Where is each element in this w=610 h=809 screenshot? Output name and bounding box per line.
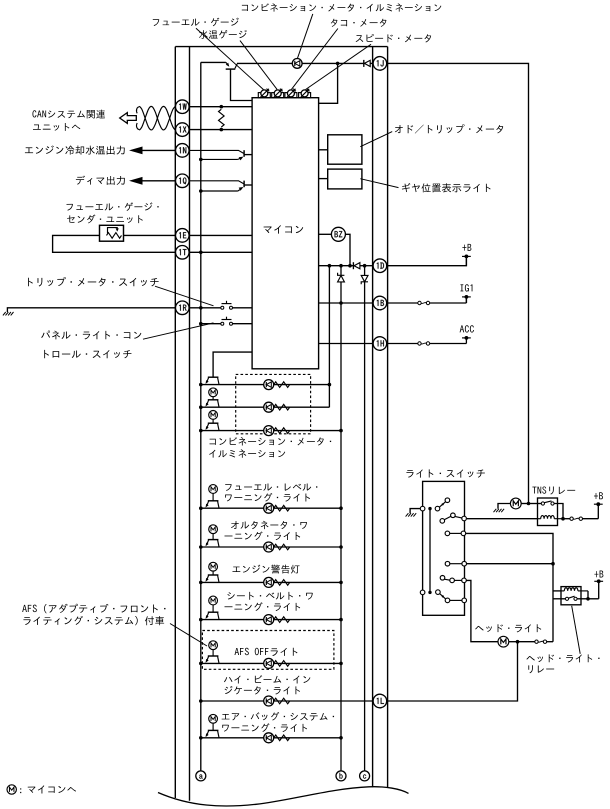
transistor tent bag row — [208, 729, 219, 731]
wire sender loop to 1T — [53, 235, 176, 252]
microcomputer M circle for alt row — [209, 525, 218, 534]
node belt row to bus — [339, 618, 343, 622]
label CAN system units — [32, 110, 36, 117]
wire microcomputer to odo box — [319, 149, 328, 151]
wire Q2 to microcomputer — [244, 184, 252, 186]
wire 1X to microcomputer — [189, 129, 252, 131]
power +B terminal (headlight relay) — [598, 581, 600, 599]
wire alt row — [201, 546, 341, 548]
wire connector to relay rail — [546, 641, 553, 643]
connector 1J — [373, 57, 387, 71]
connector pair on ACC wire — [418, 342, 421, 345]
leader line headlight relay label — [572, 606, 581, 654]
transistor tent il3 row — [208, 422, 219, 424]
microcomputer M circle for eng row — [209, 562, 218, 571]
diode D1 at 1J — [363, 60, 365, 67]
node fuel row to bus — [339, 506, 343, 510]
wire 1D to +B — [386, 258, 466, 266]
ground G2 light switch — [406, 513, 409, 516]
wire headlight M to junction — [509, 641, 518, 643]
node bus high row — [199, 699, 203, 703]
gauge M4 speedometer movement — [261, 90, 268, 97]
node after diode D2 — [363, 264, 367, 268]
label dimmer output — [76, 176, 85, 185]
wire headlight output down — [466, 580, 497, 641]
label combination meter illumination (middle) — [209, 439, 215, 445]
connector 1L — [373, 694, 387, 708]
light switch left terminal bottom — [420, 590, 425, 595]
wire afs row — [201, 662, 341, 664]
lamp fuel row — [264, 503, 274, 513]
lamp bag row — [264, 733, 274, 743]
wire 1T to microcomputer — [189, 251, 252, 253]
node bus 1R junction — [199, 306, 203, 310]
label high beam indicator light — [224, 677, 232, 682]
wire rail stub to coil — [553, 590, 561, 592]
node il1 row to bus — [328, 383, 332, 387]
node afs row to bus — [339, 662, 343, 666]
wire panel switch to microcomputer — [232, 323, 252, 325]
wire 1H to ACC — [386, 343, 418, 345]
node common bottom — [428, 591, 431, 594]
ground G1 — [3, 312, 6, 315]
frame left outer line — [174, 47, 176, 798]
node common top — [428, 507, 431, 510]
wire row2 output to vertical rail — [466, 533, 553, 641]
headlight relay contact — [565, 597, 568, 600]
TNS relay coil — [538, 518, 541, 520]
frame right strip right line — [387, 47, 389, 788]
wire high row — [201, 700, 373, 702]
resistor bag row — [274, 735, 290, 741]
transistor Q1 (coolant temp output) — [243, 150, 245, 157]
wire eng row — [201, 581, 341, 583]
connector 1X — [176, 123, 190, 137]
label seat belt warning light — [227, 592, 234, 599]
wire coil to output node — [587, 591, 589, 599]
resistor il1 row — [274, 382, 290, 388]
node warning bus 1B junction — [339, 301, 343, 305]
power IG1 terminal — [465, 297, 467, 303]
wire headlight junction down to 1L — [386, 642, 517, 701]
label speedometer — [356, 35, 364, 42]
switch contact row 2 — [445, 531, 450, 536]
node illumination rail branch — [336, 62, 340, 66]
dashed box combination meter illumination group — [236, 374, 311, 433]
light switch box — [423, 481, 465, 615]
transistor tent eng row — [208, 574, 219, 576]
arrow dimmer output — [129, 177, 143, 185]
wire branch down into microcomputer right side — [319, 63, 338, 103]
lamp il1 row — [264, 380, 274, 390]
label water temp gauge — [199, 30, 208, 39]
twisted pair CAN wires — [139, 106, 176, 129]
node 1D rail branch to illumination bus — [328, 264, 332, 268]
connector pair on IG1 wire — [418, 301, 421, 304]
lamp high row — [264, 696, 274, 706]
label engine coolant temp output — [25, 147, 33, 153]
wire row3 output to vertical rail — [467, 563, 554, 565]
microcomputer M circle for belt row — [209, 596, 218, 605]
wire Q1 to microcomputer — [244, 154, 252, 156]
transistor tent fuel row — [208, 500, 219, 502]
resistor afs row — [274, 661, 290, 667]
wire arrow to 1Q — [142, 180, 176, 182]
frame bottom torn-edge curve — [158, 787, 409, 806]
label panel light control switch — [41, 331, 50, 338]
microcomputer M circle headlight — [498, 636, 509, 647]
wire TNS output to TNS relay coil — [467, 518, 538, 520]
wire 1R to ground (left) — [7, 308, 175, 312]
node eng row to bus — [339, 581, 343, 585]
resistor high row — [274, 698, 290, 704]
power ACC terminal — [465, 338, 467, 344]
leader line tachometer to gauge M3 — [292, 29, 338, 90]
connector 1R — [176, 301, 190, 315]
wire contact to output — [577, 598, 588, 600]
leader line AFS label to AFS box — [170, 624, 207, 647]
gear position light box — [328, 169, 362, 189]
lamp afs row — [264, 658, 274, 668]
wire branch x329 down to illumination rows — [328, 266, 330, 408]
microcomputer M circle for il3 row — [209, 411, 218, 420]
node bus to Q2 — [199, 189, 203, 193]
node BZ drop junction — [348, 264, 352, 268]
fuel gauge sender unit box — [100, 225, 124, 241]
leader line speedometer to gauge M4 — [306, 44, 371, 89]
wire 1R to trip switch — [189, 307, 221, 309]
resistor il3 row — [274, 428, 290, 434]
node 1D rail branch to warning bus — [339, 264, 343, 268]
wire rail stub to contact — [553, 598, 565, 600]
lamp il3 row — [264, 426, 274, 436]
node 1X resistor junction — [220, 128, 224, 132]
wire belt row — [201, 619, 341, 621]
connector 1Q — [176, 174, 190, 188]
wire bus c down to connector c — [364, 282, 366, 771]
switch lever headlight position — [440, 576, 445, 581]
connector 1T — [176, 246, 190, 260]
switch SW2 panel light control switch — [221, 322, 224, 325]
connector 1D — [373, 259, 387, 273]
transistor tent alt row — [208, 539, 219, 541]
wire warning bus down — [340, 282, 342, 771]
switch SW1 trip meter switch — [221, 306, 224, 309]
wire il2 row — [201, 406, 330, 408]
light switch left terminal top — [420, 506, 425, 511]
transistor tent il2 row — [208, 399, 219, 401]
leader line water temp gauge to gauge M2 — [240, 41, 277, 90]
label odo/trip meter — [395, 125, 403, 133]
resistor il2 row — [274, 404, 290, 410]
wire bag row — [201, 737, 341, 739]
wire TNS contact to coil node — [554, 504, 563, 519]
hollow arrow to CAN units — [120, 113, 137, 124]
label tachometer — [331, 19, 338, 27]
variable resistor VR1 fuel sender — [107, 233, 122, 239]
resistor alt row — [274, 544, 290, 550]
switch lever OFF position (top) — [435, 506, 440, 511]
wire relay output to +B — [588, 598, 599, 600]
light switch common line — [429, 509, 431, 593]
lamp alt row — [264, 542, 274, 552]
connector pair headlight — [518, 641, 536, 643]
wire illumination feed from microcomputer — [213, 352, 252, 377]
label fuel gauge sender unit — [66, 204, 72, 211]
diode D2 on 1D rail — [352, 262, 354, 269]
wire microcomputer to BZ — [319, 233, 332, 235]
microcomputer M circle for fuel row — [209, 485, 218, 494]
node bus panel switch junction — [199, 322, 203, 326]
transistor tent afs row — [208, 655, 219, 657]
label fuel level warning light — [225, 484, 231, 491]
wire fuel row — [201, 507, 341, 509]
resistor eng row — [274, 580, 290, 586]
node TNS output — [561, 517, 565, 521]
wire main bus from top corner down left side — [200, 62, 202, 771]
TNS relay box — [538, 498, 558, 526]
wire 1Q to transistor Q2 — [189, 181, 244, 184]
label air bag system warning light — [222, 714, 230, 719]
lamp il2 row — [264, 402, 274, 412]
lamp belt row — [264, 615, 274, 625]
label headlight — [475, 626, 483, 631]
switch lever TNS position — [440, 519, 445, 524]
label TNS relay — [532, 487, 536, 494]
node bus to Q1 — [199, 158, 203, 162]
connector 1E — [176, 229, 190, 243]
switch contact row 3 — [445, 561, 450, 566]
wire bus to panel switch — [201, 323, 221, 325]
wire light switch to ground — [410, 509, 420, 514]
wire TNS M to node — [521, 503, 528, 505]
leader line fuel gauge to gauge M1 — [196, 28, 264, 89]
transistor Q10 (illumination feed, inverted tent) — [226, 68, 236, 70]
node headlight junction — [516, 640, 520, 644]
headlight relay box — [561, 587, 581, 605]
leader line combination meter illumination to lamp L1 — [298, 14, 313, 58]
connector pair TNS +B — [570, 517, 573, 520]
zener diode D4 — [364, 266, 366, 276]
node il3 row to bus — [339, 429, 343, 433]
node 1J rail at TNS relay — [527, 502, 531, 506]
transistor tent il1 row — [208, 376, 219, 378]
transistor Q2 (dimmer output) — [243, 181, 245, 188]
label AFS OFF light — [235, 648, 240, 655]
label gear position indicator light — [402, 183, 410, 192]
frame right strip left line — [372, 47, 374, 788]
wire TNS relay contact left lead — [529, 503, 542, 505]
wire microcomputer to 1B — [319, 302, 373, 304]
wire arrow to 1N — [142, 149, 176, 151]
node headlight relay output — [586, 597, 590, 601]
lamp L1 meter illumination — [292, 59, 302, 69]
wire microcomputer to 1H — [319, 343, 373, 345]
leader line odo/trip meter — [360, 132, 392, 147]
wire trip switch to microcomputer — [232, 307, 252, 309]
label light switch — [406, 470, 413, 478]
wire sender to 1E — [124, 234, 176, 236]
connector b — [336, 771, 346, 781]
wire 1J to TNS relay rail — [386, 63, 528, 503]
resistor fuel row — [274, 505, 290, 511]
wire illumination rail to 1J diode — [237, 62, 364, 64]
wire TNS to +B connector — [563, 518, 570, 520]
wire 1E to microcomputer — [189, 234, 252, 236]
switch lever bottom position — [436, 590, 441, 595]
TNS relay contact — [541, 502, 544, 505]
resistor R1 CAN terminator — [219, 109, 225, 127]
dashed box AFS OFF light — [202, 631, 334, 670]
wire 1W to microcomputer — [189, 106, 252, 108]
leader line gear position light — [360, 179, 398, 188]
connector 1B — [373, 296, 387, 310]
label trip meter switch — [28, 278, 33, 286]
node 1W resistor junction — [220, 105, 224, 109]
transistor tent belt row — [208, 611, 219, 613]
microcomputer M circle for il2 row — [209, 388, 218, 397]
microcomputer M circle TNS — [510, 498, 521, 509]
wire 1N to transistor Q1 — [189, 150, 244, 153]
wire bus top corner to diode Q10 — [201, 61, 226, 63]
wire microcomputer to 1D — [319, 265, 354, 267]
zener diode D3 — [340, 266, 342, 276]
connector 1N — [176, 144, 190, 158]
leader line trip meter switch — [155, 286, 214, 306]
arrow engine coolant temp output — [129, 147, 143, 155]
wire transistor Q10 collector down into microcomputer — [231, 69, 253, 100]
connector 1W — [176, 100, 190, 114]
leader line panel light control switch — [143, 323, 214, 339]
microcomputer M circle for bag row — [209, 714, 218, 723]
wire 1B to IG1 — [386, 302, 418, 304]
connector c — [360, 771, 370, 781]
lamp eng row — [264, 577, 274, 587]
connector 1H — [373, 337, 387, 351]
legend M circle — [7, 785, 16, 794]
resistor belt row — [274, 617, 290, 623]
label headlight relay — [526, 656, 534, 661]
node bag row to bus — [339, 736, 343, 740]
connector a — [196, 771, 206, 781]
microcomputer box U1 — [252, 98, 319, 369]
frame left inner line — [189, 47, 191, 801]
wire microcomputer to gear box — [319, 178, 328, 180]
wire TNS M to ground — [498, 504, 510, 509]
label microcomputer (maikon) — [264, 227, 272, 234]
wire il1 row — [201, 384, 330, 386]
power +B terminal (1D) — [465, 256, 467, 265]
wire il3 row — [201, 430, 341, 432]
power +B terminal (TNS) — [597, 504, 599, 519]
microcomputer M circle for afs row — [209, 641, 218, 650]
frame top line — [175, 46, 387, 48]
node bus 1T junction — [199, 251, 203, 255]
odo/trip meter box — [328, 135, 362, 164]
ground G3 TNS — [494, 509, 497, 512]
label engine warning light — [232, 567, 240, 572]
node row3 junction on rail — [551, 562, 555, 566]
node alt row to bus — [339, 545, 343, 549]
label alternator warning light — [231, 521, 239, 529]
buzzer BZ — [331, 227, 345, 241]
label fuel gauge — [153, 19, 159, 26]
label AFS adaptive front lighting system — [22, 605, 27, 612]
label combination meter illumination (top) — [242, 5, 248, 11]
meter tabs on top of microcomputer — [258, 93, 270, 98]
wire BZ down to 1D rail — [346, 234, 351, 265]
label legend to microcomputer — [20, 788, 21, 793]
headlight relay coil — [561, 590, 564, 592]
